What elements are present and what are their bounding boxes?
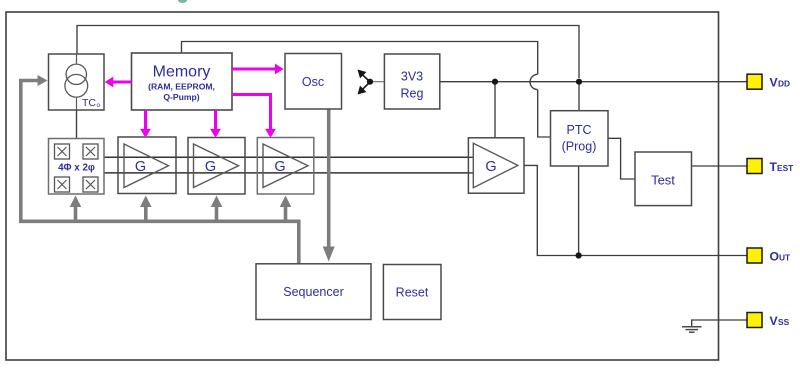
junction dot VDD-G4 bbox=[492, 79, 498, 85]
svg-text:3V3: 3V3 bbox=[401, 70, 423, 84]
svg-text:PTC: PTC bbox=[567, 123, 592, 137]
block Reset bbox=[383, 265, 441, 320]
svg-text:UT: UT bbox=[779, 252, 791, 262]
wire VDD to PTC top bbox=[578, 82, 580, 111]
svg-text:G: G bbox=[135, 159, 146, 175]
block PTC (Prog) bbox=[551, 111, 609, 166]
wire hop over VDD line bbox=[530, 74, 538, 89]
wire TC internal stem bbox=[76, 54, 78, 110]
amplifier G1 bbox=[118, 137, 176, 194]
block TC bbox=[49, 54, 105, 110]
amplifier G2 bbox=[188, 138, 245, 195]
pin VDD bbox=[747, 74, 790, 89]
junction dot VDD-PTC bbox=[576, 79, 582, 85]
svg-text:G: G bbox=[485, 159, 496, 175]
block 3V3 Reg bbox=[384, 54, 439, 109]
gray arrow up to G1 bbox=[144, 207, 148, 222]
ground bbox=[682, 327, 702, 332]
wire top line A (TC top to VDD vertical) bbox=[77, 26, 579, 79]
svg-text:Memory: Memory bbox=[153, 64, 211, 81]
svg-text:DD: DD bbox=[778, 79, 790, 89]
gray arrow up to G2 bbox=[215, 207, 219, 222]
svg-text:Q-Pump): Q-Pump) bbox=[163, 92, 199, 102]
svg-text:Reg: Reg bbox=[401, 87, 424, 101]
gray arrow Osc to Sequencer bbox=[327, 110, 331, 248]
clock symbol arrow down-left bbox=[363, 82, 371, 89]
gray arrow up to phase block bbox=[74, 207, 78, 222]
amplifier G3 bbox=[257, 138, 314, 195]
wire G4 output to OUT pin bbox=[518, 165, 747, 255]
svg-text:EST: EST bbox=[777, 163, 794, 173]
magenta arrow Memory to G1 bbox=[140, 110, 151, 138]
wire signal bus lower bbox=[104, 172, 473, 174]
svg-text:4Φ x 2φ: 4Φ x 2φ bbox=[58, 163, 95, 174]
wire signal bus upper bbox=[104, 156, 473, 158]
magenta arrow Memory to TC bbox=[105, 77, 132, 88]
clock symbol dot bbox=[367, 79, 373, 85]
pin VSS bbox=[747, 313, 790, 328]
block phase generator 4phi x 2phi bbox=[49, 139, 105, 195]
wire clock stub to 3V3 bbox=[370, 81, 384, 83]
junction dot OUT-PTC bbox=[576, 252, 582, 258]
wire TC to phase block bbox=[76, 110, 78, 139]
wire VDD to G4 top bbox=[494, 82, 496, 138]
clock symbol arrow up-left bbox=[363, 75, 371, 82]
svg-text:Reset: Reset bbox=[396, 286, 429, 300]
amplifier G4 bbox=[468, 138, 524, 193]
pin OUT bbox=[747, 248, 791, 263]
wire VDD rail bbox=[440, 81, 747, 83]
wire VSS pin to ground bbox=[692, 320, 747, 327]
gray feedback bus bbox=[21, 81, 299, 264]
wire top line B (Memory top to hop) bbox=[182, 42, 538, 75]
magenta arrow Memory to G2 bbox=[210, 110, 221, 138]
pin TEST bbox=[747, 159, 794, 174]
wire Test to TEST pin bbox=[692, 165, 748, 167]
svg-text:Sequencer: Sequencer bbox=[283, 285, 343, 299]
gray arrow into TC bbox=[38, 75, 48, 86]
svg-text:Osc: Osc bbox=[302, 75, 324, 89]
wire PTC to Test bbox=[608, 138, 635, 179]
magenta arrow Memory to Osc bbox=[232, 64, 284, 75]
block Sequencer bbox=[256, 264, 371, 320]
svg-text:O: O bbox=[770, 249, 779, 263]
svg-text:o: o bbox=[97, 102, 101, 109]
block Memory bbox=[132, 53, 233, 110]
gray arrow up to G3 bbox=[284, 207, 288, 222]
svg-text:TC: TC bbox=[82, 97, 96, 109]
svg-text:SS: SS bbox=[778, 317, 790, 327]
wire hop vertical to PTC left bbox=[538, 90, 551, 137]
svg-text:G: G bbox=[274, 159, 285, 175]
svg-text:G: G bbox=[205, 159, 216, 175]
magenta arrow Memory to G3 bbox=[232, 95, 276, 138]
block Osc bbox=[285, 54, 342, 110]
block Test bbox=[635, 152, 692, 206]
svg-text:(RAM, EEPROM,: (RAM, EEPROM, bbox=[148, 82, 215, 92]
decorative teal mark top bbox=[178, 0, 187, 3]
wire PTC bottom to OUT rail bbox=[578, 166, 580, 256]
svg-text:Test: Test bbox=[651, 173, 675, 188]
svg-text:(Prog): (Prog) bbox=[562, 140, 597, 154]
